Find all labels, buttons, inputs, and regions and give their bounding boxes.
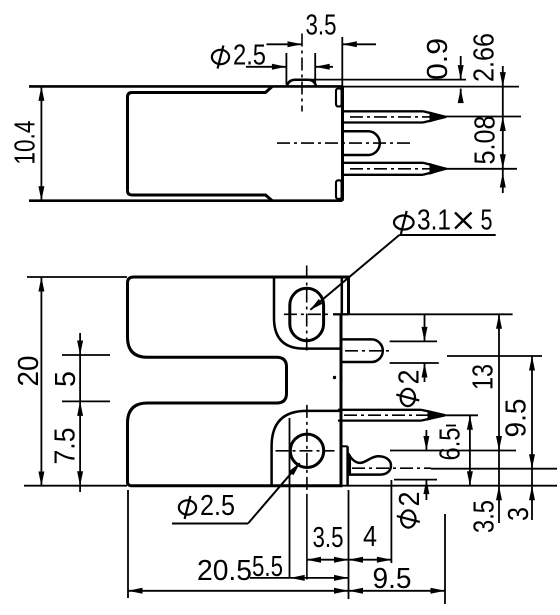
- svg-text:2: 2: [394, 492, 426, 507]
- top view: middle stub centerline: [277, 142, 412, 144]
- dimension 3.5 extension line: [341, 37, 343, 86]
- top view: main body outline: [128, 87, 273, 191]
- top edge extension left: [27, 276, 127, 278]
- front view: formed (wavy) pin: [348, 453, 391, 474]
- stub centerline: [345, 350, 392, 352]
- svg-text:7.5: 7.5: [49, 428, 81, 465]
- svg-text:6.5: 6.5: [434, 428, 466, 461]
- dimension 20.5 / 9.5 bottom line: [128, 590, 445, 592]
- dimension 10.4 line: [40, 86, 42, 200]
- dimension 20 line: [40, 277, 42, 486]
- front view: top-right lip inner edge: [341, 277, 344, 314]
- top view: lower terminal pin: [343, 162, 424, 164]
- svg-text:2: 2: [393, 370, 425, 385]
- svg-text:5.5: 5.5: [252, 551, 283, 583]
- slot bottom extension left: [62, 400, 110, 402]
- front view: body outline: [128, 277, 349, 486]
- slot top extension left: [62, 354, 110, 356]
- dimension 9.5 / 3 line: [531, 356, 533, 520]
- stub top extension: [390, 340, 437, 342]
- svg-text:5: 5: [50, 371, 82, 387]
- dimension 0.9 extension line (bump top): [310, 79, 466, 81]
- svg-text:10.4: 10.4: [10, 121, 42, 165]
- leader phi3.1x5: [399, 234, 495, 236]
- svg-text:20: 20: [13, 356, 45, 387]
- dimension 20 text: [13, 356, 45, 387]
- wavy pin centerline: [352, 467, 431, 469]
- front view: bottom step profile: [272, 411, 341, 486]
- front view: pointed terminal pin: [338, 409, 421, 411]
- vertical extension x348.5 (front face): [348, 490, 350, 599]
- svg-text:2.5: 2.5: [233, 40, 266, 72]
- dimension phi2.5 line: [246, 66, 286, 68]
- bottom edge extension right: [341, 485, 557, 487]
- svg-text:5: 5: [481, 205, 493, 237]
- label phi3.1x5 text: [394, 216, 414, 230]
- mounting hole phi2.5 circle: [290, 434, 323, 467]
- dimension 7.5 text: [49, 428, 81, 465]
- dimension 2.66 / 5.08 line: [502, 66, 504, 193]
- svg-text:3.5: 3.5: [313, 522, 344, 554]
- wavy pin lower extension: [394, 479, 437, 481]
- extension line y450.5 (line A): [390, 450, 516, 452]
- dimension 5 / 7.5 line: [79, 333, 81, 492]
- dimension 5 text: [50, 371, 82, 387]
- dimension 2.66 text: [468, 33, 500, 82]
- dimension 3.5 right text: [468, 500, 500, 533]
- dimension phi2 wavy text: [397, 510, 420, 527]
- vertical extension x289.5 (slot end): [289, 418, 291, 578]
- top view: bump vertical centerline: [301, 34, 303, 112]
- vertical extension x391.4 (pin end): [390, 480, 392, 563]
- top view: top-right notch: [336, 89, 342, 107]
- dimension 13 / 3.5 line: [498, 314, 500, 523]
- svg-text:3: 3: [503, 507, 535, 521]
- dimension phi2 wavy line: [425, 430, 427, 451]
- dimension 6.5 text: [434, 428, 466, 461]
- svg-text:2.66: 2.66: [468, 33, 500, 82]
- right extension line y314 (for dim 13): [349, 313, 513, 315]
- dimension phi2 stub line: [424, 314, 426, 341]
- stub bottom extension: [390, 362, 439, 364]
- svg-text:13: 13: [467, 364, 499, 390]
- dimension 3.5 / 4 bottom line: [307, 559, 392, 561]
- circle vertical centerline: [306, 405, 308, 495]
- svg-text:5.08: 5.08: [469, 116, 501, 165]
- dimension 6.5 line: [469, 415, 471, 485]
- svg-text:2.5: 2.5: [200, 490, 235, 522]
- svg-text:20.5: 20.5: [197, 555, 252, 587]
- svg-text:3.1: 3.1: [417, 205, 451, 237]
- dimension 3.5 line: [267, 43, 303, 45]
- extension line y356 right: [447, 355, 542, 357]
- dimension 3 right text: [503, 507, 535, 521]
- svg-text:0.9: 0.9: [422, 38, 454, 80]
- dimension phi2.5 text: [212, 50, 229, 64]
- obround vertical centerline: [306, 266, 308, 355]
- circle horizontal centerline: [276, 450, 335, 452]
- dimension 5.5 line: [250, 577, 349, 579]
- obround horizontal centerline: [284, 313, 331, 315]
- top view: lower pin centerline: [350, 168, 441, 170]
- lip bottom line: [333, 313, 349, 315]
- top view: upper terminal pin: [343, 110, 424, 112]
- top view: middle stub tab: [343, 131, 380, 155]
- front view: stub tab pin: [341, 339, 383, 362]
- top view: cap right edge: [341, 86, 344, 200]
- dimension phi2 stub text: [396, 389, 419, 406]
- svg-text:9.5: 9.5: [500, 399, 532, 438]
- top view: bottom-right notch: [336, 180, 342, 199]
- dimension 0.9 line: [460, 56, 462, 80]
- cap top extension line: [343, 86, 520, 88]
- top view: boss bump (phi 2.5): [287, 80, 316, 87]
- speck: [333, 376, 336, 379]
- mounting hole phi3.1x5 obround: [290, 288, 324, 340]
- vertical extension x128: [127, 490, 129, 598]
- dimension 10.4 text: [10, 121, 42, 165]
- svg-text:3.5: 3.5: [306, 10, 337, 42]
- dimension 0.9 text: [422, 38, 454, 80]
- vertical extension x445 (pin tip): [444, 514, 446, 604]
- dimension 5.08 text: [469, 116, 501, 165]
- lower pin centerline extension: [446, 168, 517, 170]
- leader phi2.5: [172, 523, 248, 525]
- pointed pin centerline extension: [446, 414, 478, 416]
- top view: case bottom outline line (extension + cap bottom edge): [29, 199, 343, 202]
- svg-text:4: 4: [363, 521, 377, 553]
- front view: top step profile: [274, 277, 341, 349]
- dimension 13 text: [467, 364, 499, 390]
- top view: upper pin centerline: [350, 116, 441, 118]
- svg-text:9.5: 9.5: [373, 563, 412, 595]
- top view: case top outline line (10.4 extension + cap top edge): [29, 85, 343, 88]
- upper pin centerline extension: [446, 116, 521, 118]
- svg-text:3.5: 3.5: [468, 500, 500, 533]
- dimension 9.5 right text: [500, 399, 532, 438]
- front view: bottom-right lip: [346, 446, 349, 485]
- pointed pin centerline: [344, 414, 441, 416]
- extension line y468.7 (line B): [431, 468, 557, 470]
- dimension phi2.5 extension lines: [285, 53, 287, 85]
- bottom edge extension left: [24, 485, 127, 487]
- label phi2.5 text: [179, 500, 196, 514]
